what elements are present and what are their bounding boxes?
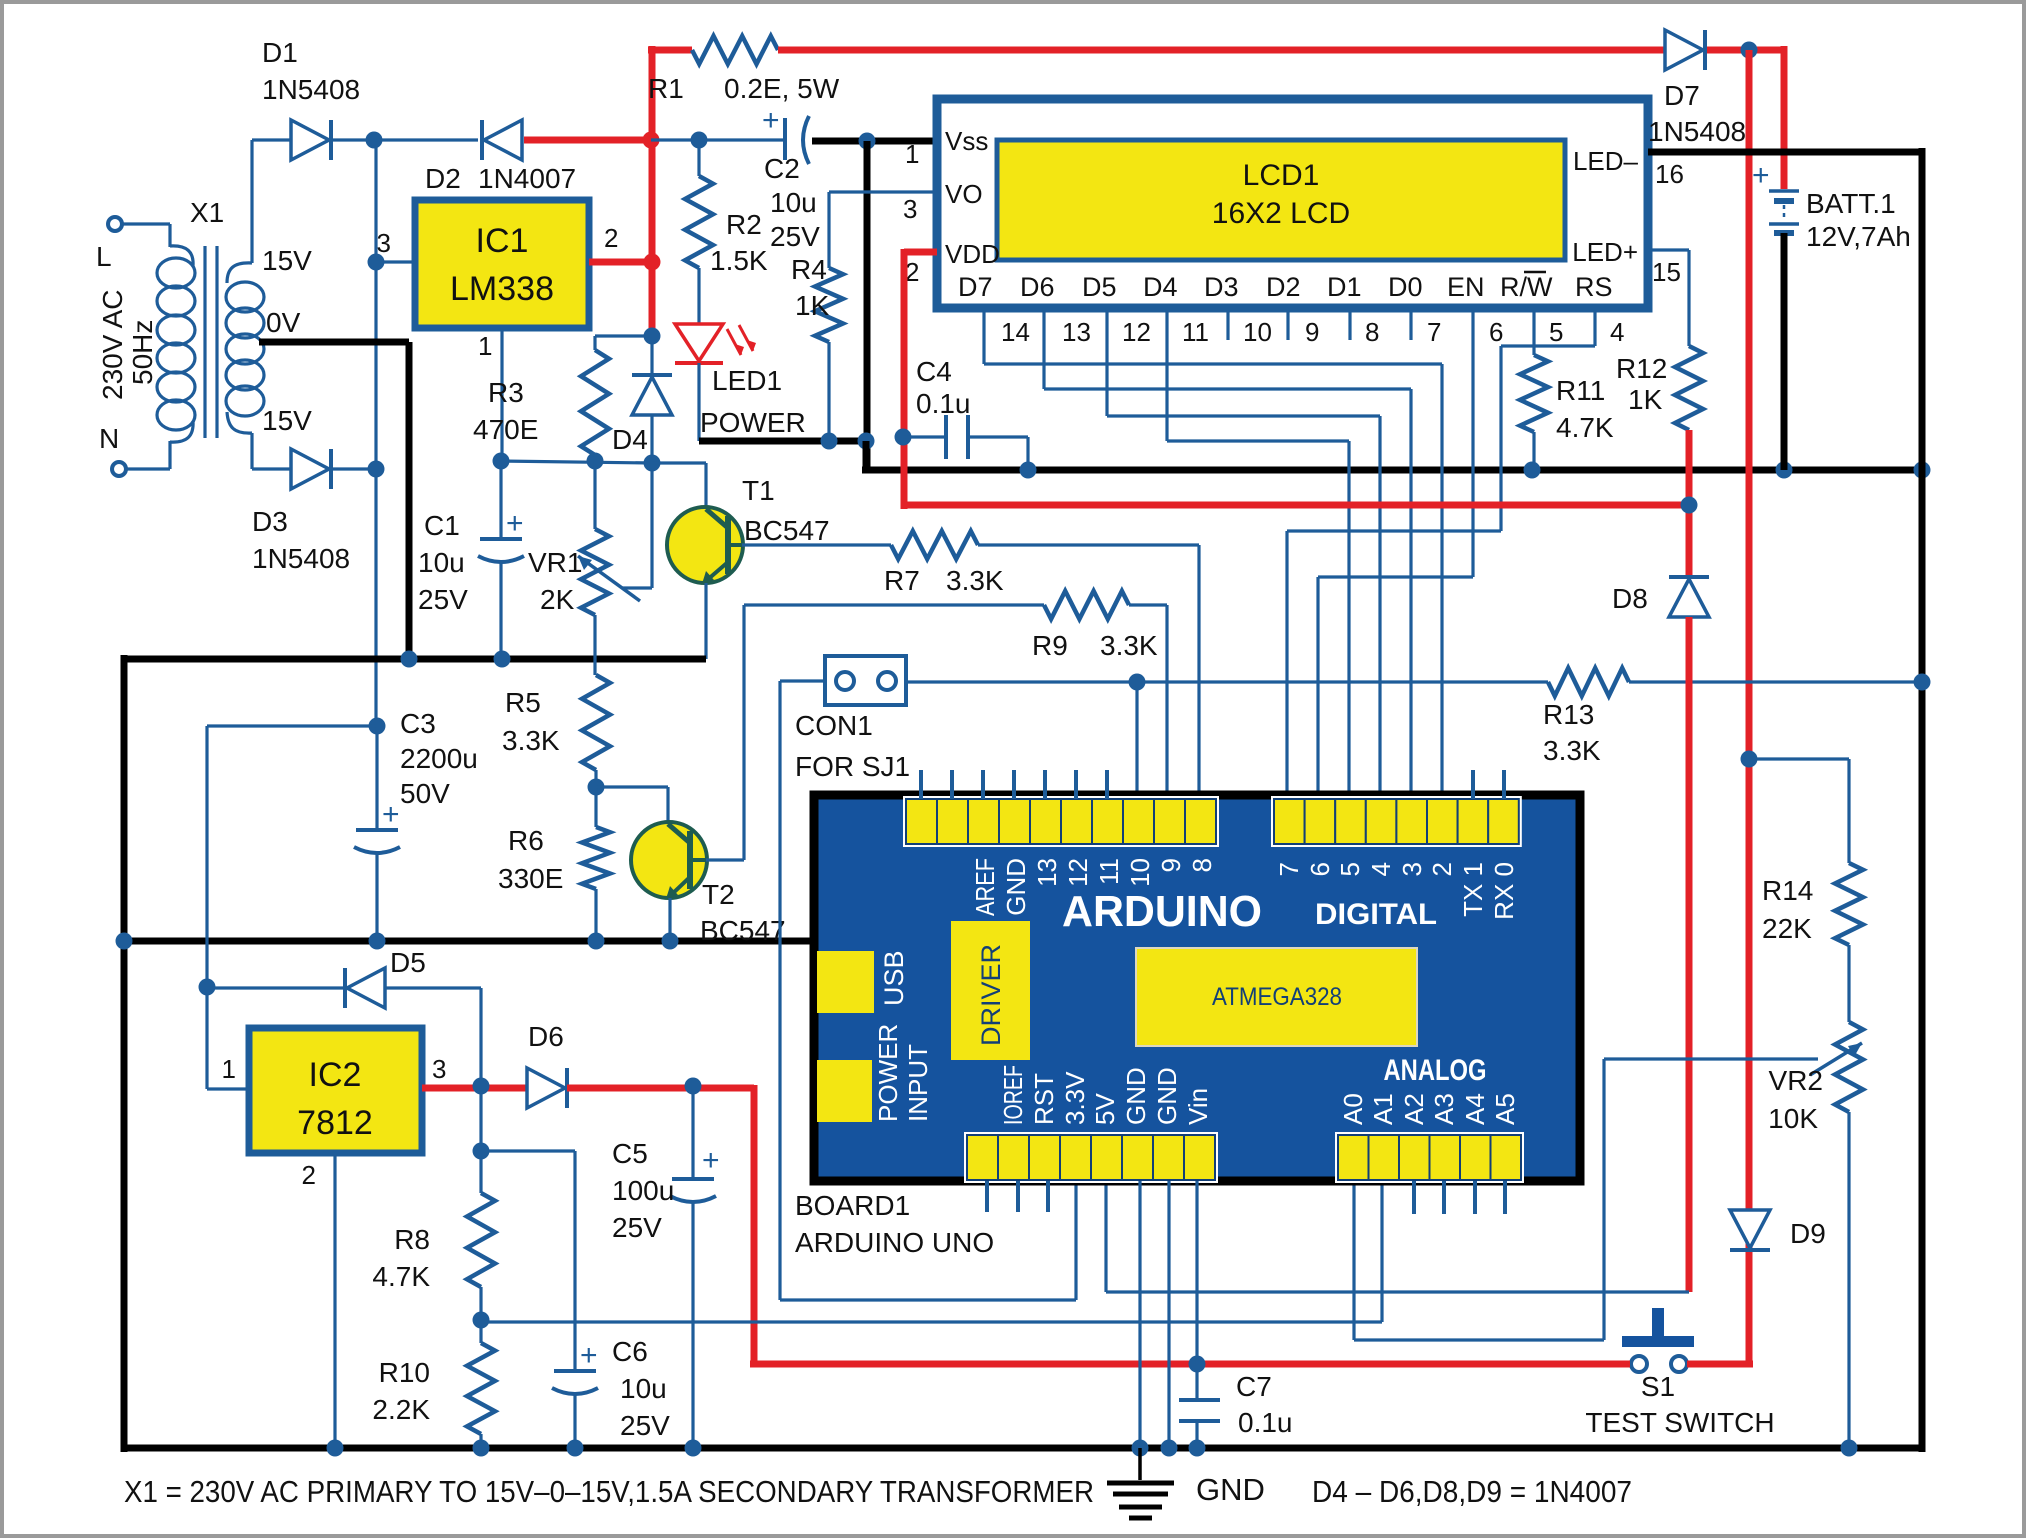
svg-text:330E: 330E — [498, 863, 563, 894]
svg-text:D5: D5 — [1082, 272, 1117, 302]
svg-text:POWER: POWER — [873, 1024, 903, 1122]
capacitor C4 — [903, 356, 1028, 470]
junction dot C5 top — [685, 1078, 702, 1095]
svg-text:R13: R13 — [1543, 699, 1594, 730]
junction dot black corner — [858, 433, 875, 450]
transistor T1 — [652, 463, 830, 584]
svg-text:D7: D7 — [958, 272, 993, 302]
pin stubs power header — [987, 1181, 1048, 1212]
svg-text:Vin: Vin — [1183, 1088, 1213, 1125]
svg-text:D1: D1 — [1327, 272, 1362, 302]
header analog — [1335, 1132, 1524, 1183]
svg-text:3: 3 — [1397, 862, 1427, 876]
LCD pin labels left — [945, 126, 1000, 269]
svg-text:16X2 LCD: 16X2 LCD — [1212, 197, 1350, 230]
svg-text:7: 7 — [1427, 317, 1441, 347]
capacitor C6 — [552, 1336, 670, 1448]
svg-text:USB: USB — [879, 950, 909, 1006]
svg-text:R8: R8 — [394, 1224, 430, 1255]
svg-text:2K: 2K — [540, 584, 575, 615]
junction dot D4 bottom — [644, 455, 661, 472]
resistor R3 — [473, 336, 652, 461]
svg-text:IOREF: IOREF — [998, 1065, 1028, 1125]
LCD pin labels right — [1572, 146, 1638, 267]
junction dot C3 bottom — [369, 933, 386, 950]
svg-text:VO: VO — [945, 179, 983, 209]
junction dot R5 R6 — [588, 779, 605, 796]
svg-text:C7: C7 — [1236, 1371, 1272, 1402]
svg-text:1: 1 — [478, 331, 492, 361]
junction dot R4 bottom — [821, 433, 838, 450]
svg-text:9: 9 — [1305, 317, 1319, 347]
svg-text:RST: RST — [1029, 1073, 1059, 1125]
terminal L — [96, 217, 122, 272]
svg-text:14: 14 — [1001, 317, 1030, 347]
node dot D1 output — [366, 132, 383, 149]
svg-text:D9: D9 — [1790, 1218, 1826, 1249]
junction dot Vss — [859, 133, 876, 150]
resistor R12 — [1616, 346, 1703, 430]
wire C1 node line — [501, 461, 652, 463]
transformer X1 — [122, 197, 264, 469]
junction dot R12/D8 — [1681, 497, 1698, 514]
IC2 pin labels — [222, 1054, 447, 1190]
junction dot R6 bottom — [588, 933, 605, 950]
svg-text:BATT.1: BATT.1 — [1806, 188, 1896, 219]
chip ATMEGA328 — [1136, 948, 1417, 1046]
labels analog header — [1338, 1093, 1520, 1125]
wire node A to IC2 branch — [207, 726, 377, 1089]
wire red S1 right up — [1687, 1361, 1753, 1368]
wire red R1 to D7 — [778, 47, 1665, 54]
svg-text:T1: T1 — [742, 475, 775, 506]
svg-text:D4: D4 — [612, 424, 648, 455]
junction dot 0V — [401, 651, 418, 668]
wire black Vss column — [864, 141, 871, 470]
svg-text:S1: S1 — [1641, 1371, 1675, 1402]
wire IC2 pin2 to ground — [333, 1153, 336, 1448]
svg-text:1.5K: 1.5K — [710, 245, 768, 276]
wire LCD pin12 to digital4 — [1107, 308, 1380, 799]
junction dot C1 top — [493, 453, 510, 470]
svg-text:DIGITAL: DIGITAL — [1315, 898, 1437, 931]
svg-text:GND: GND — [1121, 1067, 1151, 1125]
wire middle ground bus — [124, 938, 814, 945]
wire R9 to digital9 — [1129, 605, 1167, 799]
wire LCD pin6 EN to digital6 — [1318, 308, 1473, 799]
wire R8-C6 link — [481, 1151, 575, 1371]
svg-text:12V,7Ah: 12V,7Ah — [1806, 221, 1911, 252]
svg-text:VR1: VR1 — [528, 547, 582, 578]
svg-text:2: 2 — [1427, 862, 1457, 876]
wire R8 R10 junction — [479, 1287, 482, 1343]
svg-text:D0: D0 — [1388, 272, 1423, 302]
svg-text:4.7K: 4.7K — [372, 1261, 430, 1292]
wire T1 emitter to ground — [704, 583, 707, 659]
svg-text:D8: D8 — [1612, 583, 1648, 614]
label DIGITAL — [1315, 898, 1437, 931]
junction dots gnd pins — [1132, 1440, 1178, 1457]
resistor R1 — [648, 36, 840, 104]
svg-text:0.1u: 0.1u — [916, 388, 971, 419]
svg-text:VDD: VDD — [945, 239, 1000, 269]
IC2 7812 — [249, 1028, 422, 1153]
svg-text:D2: D2 — [425, 163, 461, 194]
wire R5-R6 junction — [594, 770, 597, 827]
svg-text:5: 5 — [1549, 317, 1563, 347]
label ARDUINO — [1062, 887, 1262, 936]
wire VR1 to R5 — [593, 615, 596, 675]
wire 0V tap (black) — [259, 342, 409, 659]
resistor R13 — [1543, 668, 1629, 766]
wire top ground bus 0V — [124, 656, 706, 663]
svg-text:230V AC: 230V AC — [97, 289, 128, 400]
svg-text:50V: 50V — [400, 778, 450, 809]
svg-text:R5: R5 — [505, 687, 541, 718]
wire D8 red down — [1686, 617, 1693, 1292]
svg-text:4.7K: 4.7K — [1556, 412, 1614, 443]
svg-text:C3: C3 — [400, 708, 436, 739]
resistor R2 — [685, 140, 768, 276]
svg-text:25V: 25V — [418, 584, 468, 615]
svg-text:LED1: LED1 — [712, 365, 782, 396]
svg-text:0.1u: 0.1u — [1238, 1407, 1293, 1438]
svg-text:10u: 10u — [418, 547, 465, 578]
capacitor C2 — [762, 104, 820, 252]
svg-text:X1 = 230V AC PRIMARY TO 15V–0–: X1 = 230V AC PRIMARY TO 15V–0–15V,1.5A S… — [124, 1474, 1094, 1509]
wire node to D2 — [374, 138, 478, 141]
capacitor C7 — [1179, 1364, 1293, 1448]
svg-text:0V: 0V — [266, 307, 301, 338]
labels power header — [998, 1065, 1213, 1125]
junction dot battery minus — [1776, 462, 1793, 479]
svg-text:R3: R3 — [488, 377, 524, 408]
LCD1 16x2 LCD box — [937, 99, 1648, 308]
wire CON1 right to R13 — [906, 680, 1548, 683]
diode D5 — [207, 947, 481, 1086]
resistor R5 — [502, 675, 610, 770]
wire VDD red riser — [904, 249, 937, 509]
wire junction to C2 — [651, 138, 785, 141]
svg-text:R4: R4 — [791, 254, 827, 285]
svg-text:13: 13 — [1062, 317, 1091, 347]
svg-text:3: 3 — [432, 1054, 446, 1084]
svg-text:R14: R14 — [1762, 875, 1813, 906]
svg-text:D2: D2 — [1266, 272, 1301, 302]
svg-text:TX 1: TX 1 — [1458, 862, 1488, 917]
wire IC1 pin3 — [376, 228, 415, 262]
junction dot C1 bottom — [494, 651, 511, 668]
svg-text:6: 6 — [1305, 862, 1335, 876]
wire red battery feed down to S1 — [1746, 50, 1753, 1364]
junction dot R14 tap — [1741, 751, 1758, 768]
junction dot divider — [473, 1312, 490, 1329]
svg-text:2200u: 2200u — [400, 743, 478, 774]
labels header B — [1274, 862, 1519, 920]
terminal N — [99, 423, 126, 476]
svg-text:5V: 5V — [1090, 1093, 1120, 1125]
resistor R8 — [372, 1151, 495, 1292]
svg-text:POWER: POWER — [700, 407, 806, 438]
wire R2 to LED1 — [697, 268, 700, 324]
junction dot frame mid — [116, 933, 133, 950]
svg-text:15V: 15V — [262, 245, 312, 276]
junction dot D5 anode — [199, 979, 216, 996]
svg-text:LCD1: LCD1 — [1243, 159, 1320, 192]
junction dot D4 top — [644, 328, 661, 345]
svg-text:11: 11 — [1182, 317, 1209, 347]
svg-text:9: 9 — [1156, 858, 1186, 872]
capacitor C5 — [612, 1086, 720, 1448]
pin stubs header B — [1473, 770, 1504, 799]
svg-text:12: 12 — [1122, 317, 1151, 347]
junction dot R10 gnd — [473, 1440, 490, 1457]
label 230V AC 50Hz — [97, 289, 158, 400]
svg-text:1K: 1K — [1628, 384, 1663, 415]
svg-text:3.3K: 3.3K — [502, 725, 560, 756]
svg-text:Vss: Vss — [945, 126, 988, 156]
svg-text:C2: C2 — [764, 153, 800, 184]
svg-text:25V: 25V — [770, 221, 820, 252]
svg-text:A3: A3 — [1429, 1093, 1459, 1125]
diode D9 — [1730, 1210, 1826, 1250]
resistor R11 — [1520, 355, 1614, 443]
svg-text:R9: R9 — [1032, 630, 1068, 661]
header power — [964, 1132, 1218, 1183]
svg-text:D4: D4 — [1143, 272, 1178, 302]
connector CON1 — [795, 656, 910, 782]
junction dot D5 tap — [473, 1078, 490, 1095]
svg-text:+: + — [382, 798, 400, 831]
svg-text:C6: C6 — [612, 1336, 648, 1367]
svg-text:25V: 25V — [620, 1410, 670, 1441]
junction dot C5 gnd — [685, 1440, 702, 1457]
svg-text:GND: GND — [1001, 858, 1031, 916]
svg-text:ARDUINO: ARDUINO — [1062, 887, 1262, 936]
junction dot R8 top — [473, 1143, 490, 1160]
svg-text:D6: D6 — [528, 1021, 564, 1052]
label ANALOG — [1384, 1054, 1487, 1087]
resistor R4 — [791, 254, 843, 342]
svg-text:D1: D1 — [262, 37, 298, 68]
label 15V bottom — [262, 405, 312, 436]
junction dot R13 bus — [1914, 674, 1931, 691]
note transformer — [124, 1474, 1094, 1509]
wire LED1 cathode — [697, 363, 700, 441]
wire VO to R4 — [829, 192, 937, 268]
junction dot D7 out — [1741, 42, 1758, 59]
svg-text:1: 1 — [905, 139, 919, 169]
svg-text:D4 – D6,D8,D9 = 1N4007: D4 – D6,D8,D9 = 1N4007 — [1312, 1474, 1632, 1509]
wire VR2 wiper to A0 — [1354, 1059, 1604, 1340]
wire T2 emitter to ground — [668, 898, 671, 941]
wire CON1 left to 3.3V — [780, 681, 1076, 1300]
junction dot VR2 ground — [1841, 1440, 1858, 1457]
svg-text:7812: 7812 — [297, 1104, 373, 1142]
LCD data pin labels — [958, 272, 1613, 302]
svg-text:IC1: IC1 — [476, 222, 529, 260]
svg-text:1K: 1K — [795, 290, 830, 321]
IC1 LM338 — [415, 200, 589, 328]
wire tap to digital10 — [1135, 682, 1138, 799]
junction dot C4 vdd — [895, 429, 912, 446]
diode D8 — [1612, 577, 1709, 617]
svg-text:D3: D3 — [252, 506, 288, 537]
svg-text:3: 3 — [903, 194, 917, 224]
wire secondary bottom to D3 — [252, 433, 291, 469]
svg-text:3.3K: 3.3K — [1543, 735, 1601, 766]
wire LED+ to R12 — [1648, 250, 1689, 346]
svg-text:D7: D7 — [1664, 80, 1700, 111]
wire R14 VR2 — [1847, 945, 1850, 1022]
wire C2 to Vss junction (black) — [812, 138, 937, 145]
wire R13 to right bus — [1629, 680, 1922, 683]
resistor R14 — [1762, 863, 1863, 945]
wire R4 down — [827, 342, 830, 441]
svg-text:22K: 22K — [1762, 913, 1812, 944]
svg-text:LED+: LED+ — [1572, 237, 1638, 267]
svg-text:R2: R2 — [726, 209, 762, 240]
potentiometer VR1 — [528, 461, 652, 615]
svg-text:C4: C4 — [916, 356, 952, 387]
junction dot D2/R1 — [643, 132, 660, 149]
svg-text:10u: 10u — [620, 1373, 667, 1404]
svg-text:FOR SJ1: FOR SJ1 — [795, 751, 910, 782]
junction dot right bus — [1914, 462, 1931, 479]
svg-text:R1: R1 — [648, 73, 684, 104]
wire 5V to D8 — [1106, 1181, 1689, 1292]
board BOARD1 Arduino Uno — [814, 795, 1580, 1181]
svg-text:AREF: AREF — [970, 858, 1000, 916]
svg-text:RS: RS — [1575, 272, 1613, 302]
svg-text:10: 10 — [1125, 858, 1155, 887]
wire secondary top to D1 — [252, 140, 291, 263]
svg-text:N: N — [99, 423, 119, 454]
wire IC1 pin2 (red) — [589, 223, 652, 262]
svg-text:7: 7 — [1274, 862, 1304, 876]
wire IC1 pin1 — [478, 328, 502, 461]
LCD pin numbers outside — [903, 139, 1684, 287]
diode D7 — [1648, 30, 1746, 147]
svg-text:D5: D5 — [390, 947, 426, 978]
junction dot R3 bottom — [587, 453, 604, 470]
svg-text:RX 0: RX 0 — [1489, 862, 1519, 920]
svg-text:TEST SWITCH: TEST SWITCH — [1585, 1407, 1774, 1438]
svg-text:CON1: CON1 — [795, 710, 873, 741]
svg-text:1N5408: 1N5408 — [1648, 116, 1746, 147]
svg-text:8: 8 — [1187, 858, 1217, 872]
junction dot C4 ground — [1020, 462, 1037, 479]
svg-text:A0: A0 — [1338, 1093, 1368, 1125]
svg-text:IC2: IC2 — [309, 1056, 362, 1094]
node dot D3 output — [368, 461, 385, 478]
svg-text:3.3V: 3.3V — [1060, 1071, 1090, 1125]
labels header A — [970, 858, 1217, 916]
svg-text:1: 1 — [222, 1054, 236, 1084]
wire LED- to right bus (black) — [1648, 149, 1922, 156]
svg-text:T2: T2 — [702, 879, 735, 910]
header digital A (AREF..8) — [903, 796, 1219, 847]
junction dot R2 top — [691, 132, 708, 149]
svg-text:C5: C5 — [612, 1138, 648, 1169]
resistor R7 — [884, 531, 1004, 596]
svg-text:X1: X1 — [190, 197, 224, 228]
capacitor C3 — [354, 708, 478, 941]
wire LCD pin5 to R11 — [1532, 308, 1535, 355]
svg-text:11: 11 — [1094, 858, 1124, 885]
svg-text:EN: EN — [1447, 272, 1485, 302]
LED LED1 — [675, 324, 806, 438]
svg-text:R12: R12 — [1616, 353, 1667, 384]
wire red to battery plus — [1781, 46, 1788, 189]
svg-text:10: 10 — [1243, 317, 1272, 347]
junction dot R11 ground — [1524, 462, 1541, 479]
svg-text:BOARD1: BOARD1 — [795, 1190, 910, 1221]
wire LCD pin4 RS to digital7 — [1287, 308, 1595, 799]
svg-text:3.3K: 3.3K — [1100, 630, 1158, 661]
resistor R10 — [372, 1343, 495, 1448]
svg-text:A5: A5 — [1490, 1093, 1520, 1125]
svg-text:C1: C1 — [424, 510, 460, 541]
wire battery to R14 — [1749, 759, 1849, 863]
svg-text:ARDUINO UNO: ARDUINO UNO — [795, 1227, 994, 1258]
resistor R6 — [498, 825, 610, 894]
wire divider to A1 — [481, 1181, 1382, 1322]
svg-text:+: + — [506, 507, 524, 540]
svg-text:3: 3 — [377, 228, 391, 258]
svg-text:12: 12 — [1063, 858, 1093, 887]
wire LCD pin11 to digital5 — [1167, 308, 1349, 799]
svg-text:D3: D3 — [1204, 272, 1239, 302]
svg-text:5: 5 — [1335, 862, 1365, 876]
svg-text:R6: R6 — [508, 825, 544, 856]
wire T1 collector to R7 — [742, 543, 891, 546]
diode D4 — [612, 338, 672, 463]
svg-text:R/W: R/W — [1500, 272, 1553, 302]
svg-text:INPUT: INPUT — [903, 1044, 933, 1122]
svg-text:4: 4 — [1366, 862, 1396, 876]
ground symbol GND — [1107, 1448, 1265, 1518]
wire R6 to ground — [594, 889, 597, 941]
wire GND pin2 to bus — [1167, 1181, 1170, 1448]
pin stubs header A — [921, 770, 1107, 799]
svg-text:L: L — [96, 241, 112, 272]
wire rectifier node vertical — [374, 140, 377, 726]
svg-text:100u: 100u — [612, 1175, 674, 1206]
wire right black bus — [1919, 148, 1926, 1452]
wire D3 to node — [331, 467, 374, 470]
svg-text:10K: 10K — [1768, 1103, 1818, 1134]
diode D1 — [262, 37, 360, 160]
svg-text:1N5408: 1N5408 — [252, 543, 350, 574]
svg-text:2: 2 — [604, 223, 618, 253]
label 0V — [266, 307, 301, 338]
wire D2 to R1 junction (red) — [524, 137, 651, 144]
pin stubs analog header — [1414, 1181, 1505, 1214]
svg-text:50Hz: 50Hz — [127, 320, 158, 385]
node dot IC1 pin3 — [368, 254, 385, 271]
wire D1 to node — [331, 138, 374, 141]
svg-text:BC547: BC547 — [744, 515, 830, 546]
potentiometer VR2 — [1604, 1022, 1863, 1134]
part USB — [817, 950, 909, 1013]
battery BATT.1 — [1752, 159, 1911, 252]
svg-text:2.2K: 2.2K — [372, 1394, 430, 1425]
junction dot T2 emitter — [662, 933, 679, 950]
svg-text:A4: A4 — [1460, 1093, 1490, 1125]
label ARDUINO UNO — [795, 1227, 994, 1258]
svg-text:1N5408: 1N5408 — [262, 74, 360, 105]
